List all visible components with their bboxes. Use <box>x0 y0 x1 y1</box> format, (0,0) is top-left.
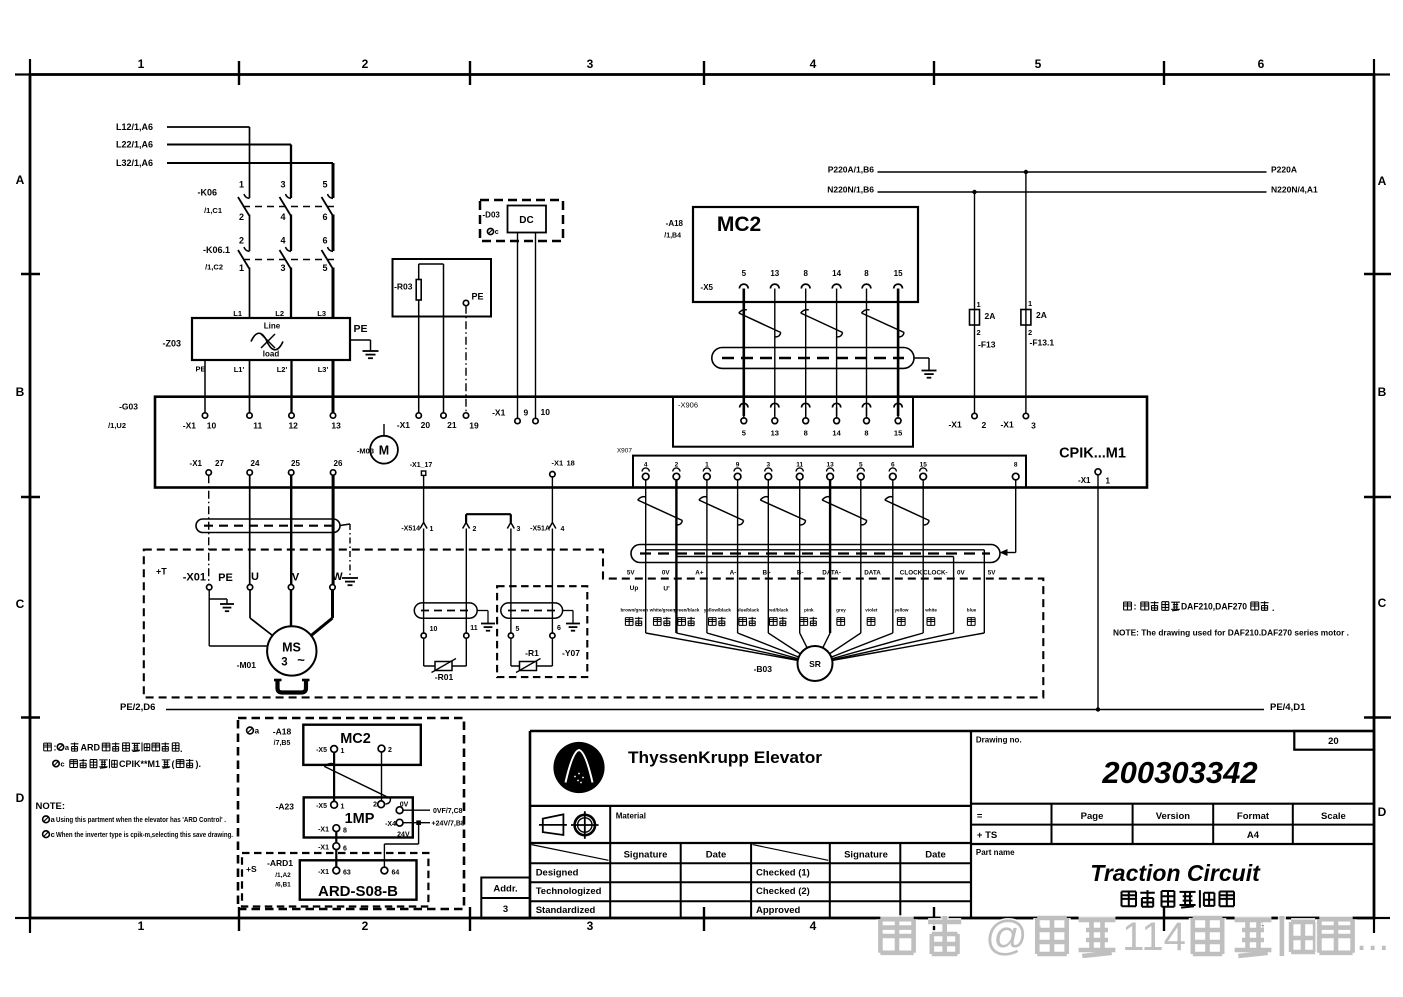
svg-text:-F13: -F13 <box>978 340 996 350</box>
wire L3 out <box>332 360 335 413</box>
svg-text:-X1: -X1 <box>183 421 197 431</box>
svg-text:1: 1 <box>138 919 145 933</box>
svg-text:Traction Circuit: Traction Circuit <box>1090 860 1261 886</box>
svg-text:PE: PE <box>353 323 367 335</box>
svg-text:10: 10 <box>430 626 438 633</box>
svg-text:4: 4 <box>280 236 285 246</box>
wire DC- to -X1 10 <box>535 233 537 419</box>
svg-text:~: ~ <box>297 653 305 668</box>
svg-text:-X51A: -X51A <box>530 526 550 533</box>
wire DC+ to -X1 9 <box>517 233 519 419</box>
svg-text:DC: DC <box>519 215 533 226</box>
svg-text:-X01: -X01 <box>183 572 206 584</box>
svg-text:6: 6 <box>322 212 327 222</box>
terminal -X1 6 <box>333 843 340 850</box>
ARD option enclosure (dashed) <box>238 718 464 909</box>
wire -X1_17 down <box>423 475 425 522</box>
svg-text:a: a <box>255 727 260 736</box>
junction PE rail <box>1096 707 1100 711</box>
svg-text:24: 24 <box>251 459 260 468</box>
ground (MC2 cable shield) <box>922 370 937 372</box>
wire encoder 1 <box>706 480 708 633</box>
svg-text:blue: blue <box>967 608 977 613</box>
connector pin -X514 1 <box>420 523 427 529</box>
svg-text:Part name: Part name <box>976 848 1015 857</box>
svg-text:-X1: -X1 <box>318 827 329 834</box>
terminal 6 of brake <box>550 633 555 638</box>
resistor -R1 <box>510 638 512 666</box>
twisted pair mark encoder 13-5 <box>822 500 867 521</box>
pin 64 of ARD <box>381 867 388 874</box>
shielded cable (thermistor) <box>414 603 477 618</box>
svg-text:D: D <box>16 791 25 805</box>
motor -M01 MS 3~ <box>267 626 316 675</box>
svg-text:Signature: Signature <box>844 849 888 860</box>
svg-text:ARD: ARD <box>81 743 101 753</box>
shielded cable (encoder) <box>631 545 1000 563</box>
terminal 11 of motor thermistor <box>464 633 469 638</box>
svg-text:26: 26 <box>334 459 343 468</box>
svg-text:C: C <box>1378 596 1387 610</box>
svg-text:Addr.: Addr. <box>493 884 517 895</box>
terminal -X1 9 <box>515 418 520 423</box>
twisted pair mark encoder 1-9 <box>699 500 744 521</box>
svg-text:-R03: -R03 <box>394 282 413 292</box>
terminal -X1 3 <box>1023 413 1028 418</box>
pin 8 of -X906 <box>802 403 810 407</box>
part name zh <box>1122 892 1137 907</box>
connector -X907 <box>633 456 1026 488</box>
svg-text:-X1: -X1 <box>318 845 329 852</box>
wire motor shield pigtail <box>340 524 350 526</box>
wire L1 feeder <box>167 126 250 128</box>
wire V to motor <box>290 590 292 626</box>
svg-text:63: 63 <box>343 870 351 877</box>
junction N220N to F13 <box>972 190 976 194</box>
svg-text:0V: 0V <box>400 802 409 809</box>
svg-text:1: 1 <box>239 180 244 190</box>
svg-text:DAF210,DAF270: DAF210,DAF270 <box>1181 602 1247 612</box>
svg-text:white/green: white/green <box>649 608 676 613</box>
svg-text:25: 25 <box>291 459 300 468</box>
svg-text:Signature: Signature <box>624 849 668 860</box>
svg-text:11: 11 <box>470 625 478 632</box>
svg-text:4: 4 <box>810 57 817 71</box>
svg-text::: : <box>1134 602 1137 612</box>
svg-text:1: 1 <box>430 526 434 533</box>
pin -X5 1 of MC2 (ARD) <box>331 746 338 753</box>
svg-text:c: c <box>495 229 499 236</box>
shielded cable (MC2 harness) <box>712 348 914 369</box>
svg-text:-A18: -A18 <box>273 727 292 737</box>
svg-text:red/black: red/black <box>768 608 789 613</box>
rectifier -D03 DC box <box>480 200 563 241</box>
terminal -X01 PE <box>207 585 212 590</box>
terminal -X1 1 (PE of CPIK) <box>1095 469 1101 475</box>
svg-text:ARD-S08-B: ARD-S08-B <box>318 883 398 900</box>
svg-text:2: 2 <box>977 328 981 337</box>
svg-text:L2': L2' <box>277 365 288 374</box>
svg-text:+ TS: + TS <box>977 830 997 841</box>
wire encoder 13 <box>829 480 831 633</box>
svg-text:20: 20 <box>1328 736 1339 747</box>
fuse -F13.1 2A <box>1025 172 1027 416</box>
ground (thermistor shield) <box>481 623 495 625</box>
svg-text:Date: Date <box>706 849 727 860</box>
svg-text:-X1: -X1 <box>397 420 411 430</box>
connector block MC2 (-A18) <box>693 207 918 302</box>
shielded cable (motor) <box>196 519 340 533</box>
encoder -B03 fan-in wires <box>646 633 815 664</box>
svg-text:19: 19 <box>469 421 479 431</box>
wire W to motor <box>331 590 334 618</box>
svg-text:13: 13 <box>331 421 341 431</box>
ThyssenKrupp logo <box>553 742 604 793</box>
terminal -X01 W <box>330 585 335 590</box>
svg-text:@: @ <box>985 912 1028 959</box>
wire pin1 to R01 <box>423 529 425 634</box>
svg-text:0V: 0V <box>957 570 966 577</box>
terminal 5 of brake <box>508 633 513 638</box>
svg-text:yellow: yellow <box>894 608 908 613</box>
svg-text:PE: PE <box>218 572 233 584</box>
svg-text:/1,C2: /1,C2 <box>205 263 223 272</box>
svg-text:21: 21 <box>447 420 457 430</box>
svg-text:/1,U2: /1,U2 <box>108 421 126 430</box>
svg-text:3: 3 <box>517 526 521 533</box>
svg-text:2A: 2A <box>1036 310 1047 320</box>
wire encoder 9 <box>737 480 739 633</box>
pin 2 of 1MP <box>378 801 385 808</box>
shield connection arrow <box>1000 549 1008 556</box>
svg-text:5: 5 <box>322 180 327 190</box>
svg-text:N220N/4,A1: N220N/4,A1 <box>1271 185 1318 195</box>
terminal -X01 U <box>247 585 252 590</box>
connector pin -X514 3 <box>507 523 514 529</box>
svg-text:0VF/7,C8: 0VF/7,C8 <box>433 808 463 815</box>
svg-text:grey: grey <box>836 608 846 613</box>
wire encoder 5 <box>860 480 862 633</box>
terminal -X1 10 <box>202 413 207 418</box>
terminal -X1 26 <box>330 470 335 475</box>
connector -X906 <box>673 397 913 447</box>
svg-text:18: 18 <box>567 459 575 468</box>
svg-text:-K06: -K06 <box>197 188 217 198</box>
svg-text:4: 4 <box>561 526 565 533</box>
terminal -X1 24 <box>247 470 252 475</box>
svg-text:2: 2 <box>239 212 244 222</box>
svg-text:CLOCK-: CLOCK- <box>923 570 947 577</box>
svg-text:5V: 5V <box>988 570 997 577</box>
wire -X1 24 to U <box>249 475 251 584</box>
junction 24V branch <box>417 821 421 825</box>
wire encoder 6 <box>892 480 894 633</box>
svg-text:/1,C1: /1,C1 <box>204 206 222 215</box>
svg-text:/6,B1: /6,B1 <box>275 882 291 889</box>
svg-text:+24V/7,B8: +24V/7,B8 <box>432 821 465 828</box>
twisted pair mark MC2 wires 1-2 <box>739 313 781 333</box>
svg-text:PE: PE <box>471 292 483 302</box>
svg-text:P220A/1,B6: P220A/1,B6 <box>828 165 875 175</box>
svg-text:6: 6 <box>343 846 347 853</box>
svg-text:CLOCK: CLOCK <box>900 570 923 577</box>
twisted pair mark ARD wires <box>324 766 390 798</box>
svg-text:SR: SR <box>809 659 821 669</box>
svg-text:3: 3 <box>1031 421 1036 431</box>
svg-text:8: 8 <box>1014 462 1018 469</box>
wire encoder 11 <box>799 480 801 633</box>
pin 14 of -X906 <box>832 403 840 407</box>
wire 24V out <box>403 822 430 824</box>
svg-text:-M03: -M03 <box>357 447 374 456</box>
terminal -X1 12 <box>289 413 294 418</box>
svg-text:MC2: MC2 <box>717 213 761 236</box>
pin -X4 24V of 1MP <box>396 819 403 826</box>
svg-text:/1,A2: /1,A2 <box>275 872 291 879</box>
node PE in R03 <box>463 300 468 305</box>
svg-text:-X4: -X4 <box>385 821 396 828</box>
svg-text:Up: Up <box>630 585 639 592</box>
svg-text:L3: L3 <box>317 309 326 318</box>
svg-text:13: 13 <box>771 429 779 438</box>
svg-text:1: 1 <box>341 804 345 811</box>
svg-text:5: 5 <box>322 263 327 273</box>
wire R03 to -X1 20 <box>418 300 420 413</box>
svg-text:3: 3 <box>503 904 508 915</box>
svg-text:2: 2 <box>388 747 392 754</box>
svg-text:8: 8 <box>803 269 808 278</box>
terminal -X1_17 <box>421 471 425 475</box>
note zh line 2 <box>53 760 59 766</box>
wire jumper pins 2-3 <box>465 514 467 522</box>
svg-text:-Y07: -Y07 <box>562 648 580 658</box>
svg-text:V: V <box>292 572 300 584</box>
svg-text:-X5: -X5 <box>701 283 714 292</box>
svg-text:ThyssenKrupp Elevator: ThyssenKrupp Elevator <box>628 749 823 767</box>
terminal -X1 19 <box>463 413 468 418</box>
svg-text:MC2: MC2 <box>340 731 371 747</box>
wire encoder 4 <box>645 480 647 633</box>
pin 13 of -X906 <box>771 403 779 407</box>
svg-text:Page: Page <box>1081 811 1104 822</box>
wire MC2-2 to 1MP-2 <box>381 752 383 801</box>
wire R01 shield pigtail <box>477 610 488 612</box>
svg-text:=: = <box>977 811 983 822</box>
terminal -X1 21 <box>441 413 446 418</box>
svg-text:/1,B4: /1,B4 <box>664 233 681 240</box>
svg-text:Using this partment when the e: Using this partment when the elevator ha… <box>56 817 226 824</box>
svg-text:-F13.1: -F13.1 <box>1030 338 1055 348</box>
svg-text:8: 8 <box>804 429 808 438</box>
svg-text:6: 6 <box>557 625 561 632</box>
svg-text::: : <box>54 743 57 753</box>
pin -X1 63 of ARD <box>333 867 340 874</box>
svg-text:114: 114 <box>1122 915 1186 959</box>
svg-text:3: 3 <box>280 180 285 190</box>
svg-text:-X1: -X1 <box>492 408 506 418</box>
svg-text:-B03: -B03 <box>754 664 773 674</box>
pin -X5 1 of 1MP <box>331 801 338 808</box>
svg-text:1: 1 <box>239 263 244 273</box>
svg-text:Drawing no.: Drawing no. <box>976 736 1022 745</box>
twisted pair mark encoder 4-2 <box>638 500 683 521</box>
svg-text:3: 3 <box>587 919 594 933</box>
svg-text:1MP: 1MP <box>345 811 375 827</box>
enclosure +T (dashed boundary) <box>144 550 1044 698</box>
svg-text:load: load <box>263 350 280 359</box>
signature/date header <box>532 845 609 861</box>
connector pin -X514 2 <box>463 523 470 529</box>
terminal -X1 11 <box>247 413 252 418</box>
terminal -X1 27 <box>206 470 211 475</box>
svg-text:10: 10 <box>541 407 551 417</box>
svg-text:200303342: 200303342 <box>1101 755 1257 790</box>
svg-text:L22/1,A6: L22/1,A6 <box>116 140 153 150</box>
svg-text:4: 4 <box>810 919 817 933</box>
wire N220N <box>878 191 1267 193</box>
pin -X1 8 of 1MP <box>333 825 340 832</box>
svg-text:+T: +T <box>156 567 167 577</box>
svg-text:-G03: -G03 <box>119 402 138 412</box>
Addr cell <box>481 878 530 919</box>
svg-text:DATA-: DATA- <box>822 570 841 577</box>
svg-text:NOTE:: NOTE: <box>36 801 66 812</box>
encoder -B03 (SR) <box>798 646 833 681</box>
svg-text:-X1: -X1 <box>190 459 203 468</box>
svg-text:Version: Version <box>1156 811 1191 822</box>
svg-text:-X1: -X1 <box>1000 420 1014 430</box>
wire L2 out <box>290 360 292 413</box>
pin 0V of 1MP <box>396 807 403 814</box>
wire -X1 18 down <box>551 477 553 523</box>
svg-text:10: 10 <box>207 421 217 431</box>
svg-text:14: 14 <box>832 269 841 278</box>
svg-text:-D03: -D03 <box>483 211 501 220</box>
svg-text:Approved: Approved <box>756 905 801 916</box>
wire -X1 25 to V <box>290 475 292 584</box>
svg-text:NOTE: The drawing used for DA: NOTE: The drawing used for DAF210.DAF270… <box>1113 628 1349 638</box>
wire PE to ground <box>208 590 210 599</box>
terminal -X01 V <box>288 585 293 590</box>
wire L1 out <box>249 360 251 413</box>
svg-text:).: ). <box>196 759 202 769</box>
watermark zhihu <box>880 919 913 953</box>
wire U to motor <box>249 590 251 618</box>
connector block MC2 (ARD) <box>303 725 421 765</box>
wire PE to motor frame <box>208 599 210 646</box>
svg-text:64: 64 <box>392 870 400 877</box>
svg-text:A+: A+ <box>695 570 704 577</box>
svg-text:Scale: Scale <box>1321 811 1346 822</box>
wire MC2-1 to 1MP-1 <box>333 752 335 801</box>
svg-text:-X5: -X5 <box>316 747 327 754</box>
svg-text:3: 3 <box>587 57 594 71</box>
ground (brake shield) <box>566 623 580 625</box>
wire -X1 26 to W <box>332 475 335 584</box>
svg-text:-R01: -R01 <box>435 672 454 682</box>
wire 0V jumper <box>676 556 953 558</box>
enclosure +S (dashed) <box>242 853 428 907</box>
wire R01 to pin2 <box>465 529 467 634</box>
svg-text:Designed: Designed <box>536 867 579 878</box>
svg-text:-A18: -A18 <box>666 219 684 228</box>
thermistor -R01 <box>423 638 425 666</box>
svg-text:blue/black: blue/black <box>737 608 760 613</box>
brake unit -Y07 (dashed box) <box>497 586 587 677</box>
svg-text:Format: Format <box>1237 811 1270 822</box>
svg-text:-K06.1: -K06.1 <box>203 245 230 255</box>
svg-text:L1': L1' <box>234 365 245 374</box>
svg-text:-ARD1: -ARD1 <box>267 858 293 868</box>
svg-text:5: 5 <box>1035 57 1042 71</box>
svg-text:2: 2 <box>362 57 369 71</box>
wire encoder 2 <box>675 480 677 633</box>
title block <box>529 731 532 918</box>
svg-text:L3': L3' <box>318 365 329 374</box>
svg-text:11: 11 <box>253 421 262 431</box>
svg-text:B: B <box>16 385 25 399</box>
svg-text:9: 9 <box>524 408 529 418</box>
svg-text:When the inverter type is cpik: When the inverter type is cpik-m,selecti… <box>56 832 233 839</box>
svg-text:13: 13 <box>770 269 779 278</box>
svg-text:6: 6 <box>322 236 327 246</box>
fan motor -M03 <box>383 424 385 436</box>
terminal 10 of motor thermistor <box>421 633 426 638</box>
wire L3 feeder <box>167 162 333 164</box>
svg-text:c: c <box>60 759 64 768</box>
twisted pair mark MC2 wires 5-6 <box>862 313 905 333</box>
svg-text:B-: B- <box>797 570 804 577</box>
svg-text:B: B <box>1378 385 1387 399</box>
wire 24V to ARD 64 <box>418 823 420 844</box>
svg-text:-M01: -M01 <box>237 660 257 670</box>
svg-text:20: 20 <box>421 420 431 430</box>
svg-text:CPIK**M1: CPIK**M1 <box>119 759 160 769</box>
svg-text:yellow/black: yellow/black <box>704 608 732 613</box>
svg-text:+S: +S <box>246 864 257 874</box>
junction P220A to F13.1 <box>1024 170 1028 174</box>
svg-text:white: white <box>924 608 937 613</box>
svg-text:-X906: -X906 <box>678 401 698 410</box>
svg-text:-X5: -X5 <box>316 803 327 810</box>
svg-text:/7,B5: /7,B5 <box>274 740 291 747</box>
svg-text:-A23: -A23 <box>276 802 295 812</box>
wire filter PE to ground <box>350 339 371 341</box>
svg-text:-X514: -X514 <box>401 526 420 533</box>
svg-text:Technologized: Technologized <box>536 886 602 897</box>
svg-text:PE/2,D6: PE/2,D6 <box>120 702 155 713</box>
terminal -X1 2 <box>972 413 977 418</box>
wire encoder shield drain <box>1015 480 1017 553</box>
svg-text:A: A <box>1378 174 1387 188</box>
svg-text:M: M <box>379 444 389 458</box>
svg-text:-X1: -X1 <box>318 869 329 876</box>
connector pin -X51A 4 <box>549 523 556 529</box>
twisted pair mark MC2 wires 3-4 <box>801 313 843 333</box>
projection symbols <box>543 814 564 835</box>
wire R03 to -X1 21 <box>443 264 445 413</box>
svg-text:U: U <box>251 571 259 583</box>
svg-text:1: 1 <box>1106 477 1111 486</box>
svg-text:8: 8 <box>343 828 347 835</box>
note EN a <box>43 816 50 823</box>
wire 6 to ARD 63 <box>335 850 337 868</box>
svg-text:D: D <box>1378 805 1387 819</box>
svg-text:N220N/1,B6: N220N/1,B6 <box>827 185 874 195</box>
svg-text:2: 2 <box>982 420 987 430</box>
svg-text:C: C <box>16 597 25 611</box>
svg-text:Date: Date <box>925 849 946 860</box>
